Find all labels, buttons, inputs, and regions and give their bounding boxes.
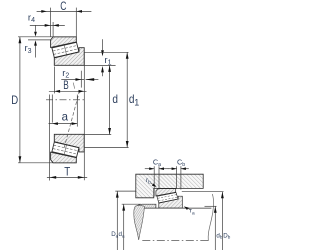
axis centerline right drawing <box>142 240 209 242</box>
svg-text:ra: ra <box>190 208 195 217</box>
cage dashes roller bottom <box>53 145 78 154</box>
svg-text:r4: r4 <box>28 12 35 24</box>
dimension B <box>49 67 87 94</box>
svg-text:db: db <box>216 232 222 239</box>
tapered roller top <box>52 42 79 57</box>
dimension da <box>122 204 141 250</box>
svg-text:D: D <box>11 93 18 107</box>
cage dashes roller top <box>53 45 78 54</box>
outer ring (cup) top section <box>51 37 77 48</box>
dimension Cb <box>168 166 189 189</box>
svg-text:r3: r3 <box>25 43 32 55</box>
housing section <box>136 174 203 198</box>
small bearing: cup <box>156 189 176 196</box>
dimension r3 <box>28 25 51 57</box>
dimension d <box>84 65 115 134</box>
tapered roller bottom <box>52 142 79 157</box>
dimension d1 <box>84 52 128 147</box>
dimension a <box>49 95 78 181</box>
roller mid tick bottom <box>64 145 66 155</box>
shaft break teardrop <box>134 205 145 239</box>
axis centerline left drawing <box>46 99 85 101</box>
svg-text:r1: r1 <box>104 55 111 67</box>
roller mid tick top <box>64 45 66 55</box>
svg-text:Db: Db <box>223 232 230 239</box>
dimension T <box>47 52 87 180</box>
dimension r1 <box>102 39 104 76</box>
svg-text:Cb: Cb <box>177 158 185 168</box>
dimension r4 <box>30 22 65 37</box>
svg-text:a: a <box>62 109 69 123</box>
contact pressure dashed line <box>64 91 79 148</box>
svg-text:r2: r2 <box>62 68 69 80</box>
dimension r2 <box>61 71 98 88</box>
svg-text:1: 1 <box>134 98 139 108</box>
dimension Ca <box>145 166 169 196</box>
svg-text:C: C <box>60 0 66 13</box>
shaft surface line <box>135 207 211 209</box>
outer ring (cup) bottom section <box>51 152 77 163</box>
dimension db <box>205 206 217 250</box>
svg-text:Ca: Ca <box>153 158 161 168</box>
dimension Db <box>182 192 224 250</box>
housing/shaft break curve right <box>208 194 213 241</box>
svg-text:B: B <box>63 78 69 92</box>
svg-text:d: d <box>112 92 118 106</box>
dimension Da <box>115 191 136 250</box>
small bearing: roller <box>157 193 178 203</box>
leader tick near B <box>73 83 75 89</box>
inner ring (cone) top section <box>54 48 84 66</box>
dimension C <box>37 8 92 37</box>
inner ring (cone) bottom section <box>54 134 84 152</box>
shaft shoulder band <box>135 204 156 208</box>
small bearing: cone <box>159 196 183 208</box>
svg-text:T: T <box>64 164 71 178</box>
dimension D <box>18 36 76 38</box>
